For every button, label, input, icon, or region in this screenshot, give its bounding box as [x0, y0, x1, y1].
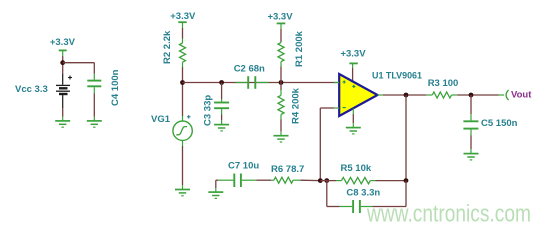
ground (battery): [55, 117, 70, 128]
label C2 68n: [234, 63, 265, 74]
svg-text:+3.3V: +3.3V: [170, 11, 196, 22]
op-amp plus input mark: [343, 80, 346, 83]
wire R4 top: [280, 83, 282, 91]
op-amp input leads: [334, 83, 339, 109]
ground (C4): [87, 117, 102, 128]
label Vcc 3.3: [15, 84, 48, 95]
svg-text:+3.3V: +3.3V: [340, 49, 366, 60]
ground (C5): [464, 149, 479, 160]
wire R2 top: [182, 28, 184, 39]
wire C8 right riser: [405, 181, 407, 207]
wire battery top: [62, 56, 64, 74]
svg-text:Vcc 3.3: Vcc 3.3: [15, 84, 48, 95]
output pin arc: [506, 90, 509, 100]
power tick (battery): [59, 50, 67, 56]
svg-text:R6 78.7: R6 78.7: [271, 164, 304, 175]
wire output junction down: [405, 95, 407, 181]
wire C8 right horizontal: [372, 206, 406, 208]
power +3.3V label (R2): [170, 11, 196, 22]
node R2/VG1: [180, 80, 185, 85]
wire C3 top: [221, 83, 223, 100]
wire R5 to node G: [376, 180, 407, 182]
svg-text:R3 100: R3 100: [428, 78, 459, 89]
VG1 plus mark: [187, 115, 191, 119]
label C3 33p: [203, 95, 214, 126]
svg-text:C5 150n: C5 150n: [481, 118, 518, 129]
svg-text:www.cntronics.com: www.cntronics.com: [366, 201, 531, 228]
svg-text:C7 10u: C7 10u: [228, 161, 259, 172]
battery Vcc 3.3: [56, 74, 72, 108]
wire C7 to R6: [256, 179, 271, 181]
label R3 100: [428, 78, 459, 89]
svg-text:R4 200k: R4 200k: [291, 87, 302, 124]
label U1 TLV9061: [372, 71, 423, 82]
wire C3 bottom: [221, 115, 223, 121]
svg-text:C2 68n: C2 68n: [234, 63, 265, 74]
wire R2 bottom to VG1: [182, 67, 184, 116]
svg-text:C4 100n: C4 100n: [110, 69, 121, 106]
wire R4 bottom: [280, 120, 282, 132]
wire U1 ground drop: [352, 109, 354, 124]
wire output to R3: [383, 94, 426, 96]
resistor R6: [271, 177, 300, 183]
svg-text:C3 33p: C3 33p: [203, 95, 214, 126]
output pin lead: [499, 94, 505, 96]
wire main line R2 node to opamp: [183, 82, 340, 84]
label C7 10u: [228, 161, 259, 172]
svg-text:Vout: Vout: [511, 90, 532, 101]
capacitor C4: [87, 74, 101, 94]
op-amp minus input mark: [343, 107, 346, 109]
node C5 junction: [469, 93, 474, 98]
wire minus input down: [319, 108, 321, 181]
node battery/C4 junction: [60, 60, 65, 65]
node R1/R4: [279, 80, 284, 85]
wire C5 bottom: [470, 136, 472, 150]
svg-text:U1 TLV9061: U1 TLV9061: [372, 71, 423, 82]
capacitor C3: [214, 99, 229, 115]
label R5 10k: [341, 163, 372, 174]
power +3.3V label (battery): [50, 37, 76, 48]
ground (U1): [346, 123, 361, 134]
op-amp supply plus mark: [352, 85, 355, 88]
resistor R3: [426, 92, 457, 98]
node G feedback junction: [404, 178, 409, 183]
ground (C7): [208, 192, 223, 198]
capacitor C7: [218, 174, 256, 188]
power +3.3V label (R1): [267, 12, 293, 23]
label Vout: [511, 90, 532, 101]
label R4 200k: [291, 87, 302, 124]
wire R1 bottom: [280, 67, 282, 83]
label C5 150n: [481, 118, 518, 129]
resistor R1: [278, 42, 284, 67]
svg-text:R1 200k: R1 200k: [294, 30, 305, 67]
wire R3 to C5 node: [457, 94, 498, 96]
wire U1 supply: [352, 68, 354, 81]
wire R6 to node F: [300, 179, 320, 181]
label C4 100n: [110, 69, 121, 106]
power +3.3V label (U1): [340, 49, 366, 60]
wire C4 top: [93, 63, 95, 74]
label R1 200k: [294, 30, 305, 67]
resistor R5: [336, 177, 376, 183]
op-amp output lead: [378, 94, 384, 96]
svg-text:VG1: VG1: [151, 114, 171, 125]
label R2 2.2k: [162, 30, 173, 64]
svg-text:R5 10k: R5 10k: [341, 163, 372, 174]
wire minus input: [320, 107, 334, 109]
capacitor C8: [340, 200, 372, 213]
wire C7 ground stub: [216, 180, 219, 192]
wire C4 bottom: [93, 94, 95, 117]
wire battery bottom: [62, 108, 64, 117]
svg-text:+3.3V: +3.3V: [50, 37, 76, 48]
resistor R2: [180, 39, 186, 68]
wire R1 top: [280, 29, 282, 42]
wire node F to R5: [320, 180, 336, 182]
resistor R4: [278, 90, 284, 120]
svg-text:+3.3V: +3.3V: [267, 12, 293, 23]
ground (VG1): [175, 185, 190, 196]
node output junction: [404, 93, 409, 98]
power tick (R2): [178, 22, 186, 28]
node F C8 branch: [324, 178, 329, 183]
ground (R4): [274, 131, 289, 142]
capacitor C5: [463, 114, 478, 135]
wire C8 left horizontal: [327, 206, 340, 208]
node F minus branch: [318, 178, 323, 183]
op-amp U1 TLV9061: [339, 74, 377, 116]
svg-text:R2 2.2k: R2 2.2k: [162, 30, 173, 64]
capacitor C2: [236, 76, 269, 89]
power tick (R1): [277, 23, 286, 29]
svg-text:C8 3.3n: C8 3.3n: [346, 187, 380, 198]
wire C8 left drop: [326, 181, 328, 207]
wire C5 top: [470, 95, 472, 114]
source VG1: [173, 116, 192, 146]
label C8 3.3n: [346, 187, 380, 198]
ground (C3): [214, 120, 229, 131]
node C3 tap: [219, 80, 224, 85]
label R6 78.7: [271, 164, 304, 175]
wire battery node to C4: [63, 62, 95, 64]
label VG1: [151, 114, 171, 125]
power tick (U1): [349, 63, 357, 68]
wire VG1 bottom: [182, 146, 184, 185]
